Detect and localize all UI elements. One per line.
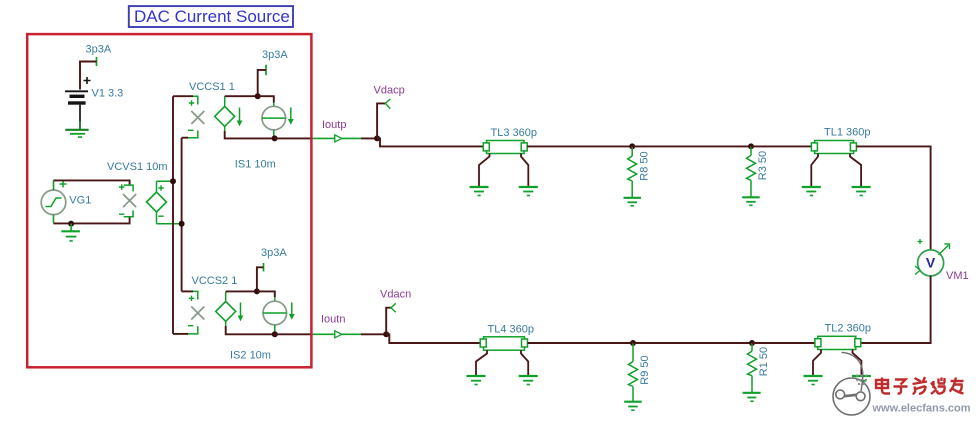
ground (R3) [742,197,760,205]
battery V1 plus sign [84,77,91,84]
wire VM1 bottom to bottom rail corner [856,276,930,343]
wire VCCS2 diamond bottom to output rail [226,326,275,334]
voltmeter VM1 [915,239,950,276]
junction dot IS2 bottom [272,331,278,337]
IS2 current arrow [289,303,295,320]
IS2 current source circle [263,297,287,334]
wire 3p3A to IS2 top junction [257,267,264,291]
svg-text:VCCS2 1: VCCS2 1 [192,275,238,287]
wire junction to IS1 top [258,96,274,102]
wire bottom rail TL4 to R9 [528,342,634,344]
ground (VG1) [61,224,80,241]
TL4 left leg wire [476,350,487,376]
transmission line TL4 [480,337,527,350]
junction dot R1 [749,340,755,346]
TL4 right leg wire [521,350,528,376]
transmission line TL3 [483,141,527,154]
net A vertical wire [172,96,174,334]
wire Ioutn maroon segment [275,333,312,335]
junction dot R8 [629,143,635,149]
wire VCCS1 diamond bottom to output rail [225,131,275,138]
svg-text:3p3A: 3p3A [262,49,288,61]
wire 3p3A to IS1 top junction [258,70,266,96]
TL3 right leg wire [521,154,528,188]
wire Ioutp maroon segment [275,137,312,139]
svg-text:www.elecfans.com: www.elecfans.com [872,403,971,415]
junction dot VCCS1 top [255,93,261,99]
ground (TL1 left) [802,187,821,196]
node 3p3A terminal tick (VCCS1) [265,65,267,76]
resistor R3 [747,146,756,197]
TL2 left leg wire [813,350,821,377]
wire Ioutp green segment with arrow [312,135,361,142]
VCCS2 current arrow [238,303,244,322]
svg-text:TL3 360p: TL3 360p [491,127,537,139]
ground (R1) [743,393,761,402]
generator VG1 circle [41,190,66,215]
TL1 left leg wire [811,154,818,188]
svg-text:V: V [926,255,936,271]
svg-text:Vdacn: Vdacn [380,289,411,301]
wire VCCS1 diamond top to node [225,95,258,97]
TL1 right leg wire [850,154,861,188]
wire top rail TL3 to R8 [527,145,632,147]
svg-text:TL1 360p: TL1 360p [824,127,870,139]
wire net B to VCCS2 input plus [182,290,193,292]
junction dot Vdacp [374,135,380,141]
wire bottom rail R9 to R1 [633,342,752,344]
svg-text:R8 50: R8 50 [638,151,650,180]
wire VG1 top to VCVS1 input [54,180,130,184]
ground (TL2 left) [804,376,823,385]
junction dot R9 [630,340,636,346]
IS1 current source circle [262,103,286,139]
wire top rail jog to TL3 [377,138,483,146]
red enclosure box [27,34,311,367]
wire top rail TL1 to corner and down to VM1 [856,146,930,250]
svg-text:VM1: VM1 [946,270,969,282]
svg-text:Ioutn: Ioutn [321,314,345,326]
ground (TL4 right) [519,376,538,385]
battery V1 3.3 [65,91,88,130]
wire net A to VCCS2 input minus [173,333,188,335]
wire bottom rail jog to TL4 [386,334,480,343]
wire Ioutn green segment with arrow [312,331,361,338]
transmission line TL1 [811,141,856,154]
junction dot VG1 ground [68,221,74,227]
svg-text:V1 3.3: V1 3.3 [92,88,124,100]
svg-text:VCCS1 1: VCCS1 1 [189,81,235,93]
ground (TL3 right) [519,187,538,196]
watermark dot matrix [856,374,867,385]
VG1 top stub and plus [53,180,55,190]
ground (R9) [624,402,642,411]
wire top rail R8 to R3 [632,145,751,147]
node 3p3A terminal tick (VCCS2) [263,263,265,272]
svg-text:R9 50: R9 50 [639,355,651,384]
wire top rail R3 to TL1 [751,145,811,147]
wire Ioutn to Vdacn junction [361,333,386,335]
ground (TL4 left) [467,376,486,385]
title box DAC Current Source [129,6,293,27]
wire junction to IS2 top [257,291,275,297]
svg-text:3p3A: 3p3A [86,44,112,56]
junction dot VCCS2 top [254,288,260,294]
watermark text 电子发烧友 (drawn strokes) [876,377,964,394]
TL3 left leg wire [479,154,490,188]
svg-text:DAC Current Source: DAC Current Source [134,7,290,26]
TL2 right leg wire [853,350,862,377]
ground (TL2 right) [852,376,871,385]
resistor R1 [748,343,757,393]
wire VCCS2 diamond top to node [226,290,257,292]
resistor R9 [629,343,638,402]
VCVS1 input X [119,184,136,217]
node Vdacn stub and terminal [386,303,396,334]
svg-text:R3 50: R3 50 [757,151,769,180]
VCCS1 current arrow [237,108,243,127]
svg-text:R1 50: R1 50 [758,347,770,376]
VCCS2 diamond source [216,291,236,326]
IS1 current arrow [288,108,294,125]
ground (TL3 left) [470,187,489,196]
ground (battery) [65,130,88,137]
junction dot Vdacn [383,331,389,337]
VCCS1 input X [188,96,204,138]
wire Ioutp to Vdacp junction [361,137,377,139]
svg-text:IS2 10m: IS2 10m [230,350,271,362]
junction dot R3 [748,143,754,149]
VCCS2 input X [188,291,204,334]
wire battery plus to 3p3A [80,62,97,90]
net B junction dot at VCVS1 minus [179,221,185,227]
ground (R8) [624,198,642,206]
wire net B to VCCS1 input minus [182,137,188,139]
svg-text:3p3A: 3p3A [261,247,287,259]
svg-text:Ioutp: Ioutp [322,119,346,131]
svg-text:VCVS1 10m: VCVS1 10m [107,161,168,173]
net A junction dot at VCVS1 plus [170,178,176,184]
net B vertical wire [181,138,183,292]
VG1 bottom stub [53,215,55,224]
transmission line TL2 [815,336,861,349]
resistor R8 [628,146,637,197]
VCVS1 diamond source [147,181,182,223]
node Vdacp stub and terminal [377,99,390,138]
svg-text:IS1 10m: IS1 10m [235,159,276,171]
svg-text:VG1: VG1 [69,195,91,207]
VCCS1 diamond source [215,96,235,131]
wire net A to VCCS1 input plus [173,95,193,97]
node 3p3A terminal tick (battery) [96,57,98,66]
VG1 waveform [46,198,62,207]
wire bottom rail R1 to TL2 [752,342,815,344]
wire VG1 bottom to VCVS1 input minus [54,217,130,223]
watermark logo circle [833,353,870,416]
junction dot IS1 bottom [272,135,278,141]
svg-text:Vdacp: Vdacp [374,85,405,97]
svg-text:TL2 360p: TL2 360p [825,323,871,335]
ground (TL1 right) [852,187,871,196]
svg-text:TL4 360p: TL4 360p [488,324,534,336]
